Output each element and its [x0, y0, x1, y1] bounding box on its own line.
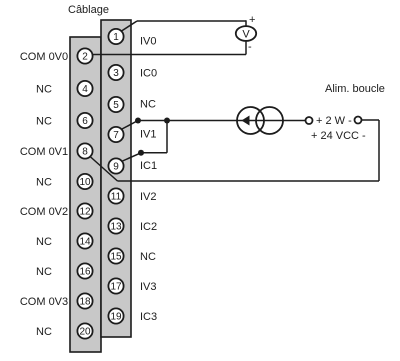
svg-text:Câblage: Câblage [68, 4, 109, 16]
terminal 8 [77, 143, 92, 158]
terminal 13 [108, 218, 123, 233]
terminal 20 [77, 323, 92, 338]
terminal block strip left (even terminals) [70, 37, 101, 352]
wire voltmeter top drop [245, 20, 247, 26]
svg-text:NC: NC [36, 177, 52, 189]
terminal 4 [77, 81, 92, 96]
wire node B drop vertical [166, 121, 168, 153]
svg-text:+ 24 VCC -: + 24 VCC - [311, 130, 366, 142]
wire terminal 1 to voltmeter (diagonal) [122, 21, 138, 31]
svg-text:IC0: IC0 [140, 68, 157, 80]
svg-text:NC: NC [36, 326, 52, 338]
terminal 14 [77, 233, 92, 248]
terminal 5 [108, 97, 123, 112]
terminal 1 [108, 29, 123, 44]
svg-text:3: 3 [113, 68, 119, 79]
svg-text:NC: NC [36, 116, 52, 128]
svg-text:8: 8 [82, 147, 88, 158]
svg-text:+ 2 W -: + 2 W - [316, 115, 352, 127]
loop supply terminal - (right ring) [355, 117, 362, 124]
node A junction dot [135, 118, 141, 124]
svg-text:9: 9 [113, 162, 119, 173]
wire voltmeter top horizontal [137, 20, 246, 22]
svg-text:IC2: IC2 [140, 221, 157, 233]
svg-text:5: 5 [113, 100, 119, 111]
svg-text:COM 0V3: COM 0V3 [20, 296, 68, 308]
svg-text:Alim. boucle: Alim. boucle [325, 83, 385, 95]
terminal 19 [108, 308, 123, 323]
svg-text:11: 11 [111, 192, 122, 203]
node C junction dot [138, 150, 144, 156]
terminal 16 [77, 263, 92, 278]
svg-text:IC1: IC1 [140, 160, 157, 172]
voltmeter U (circle with V) [236, 26, 256, 41]
svg-text:COM 0V0: COM 0V0 [20, 51, 68, 63]
svg-text:-: - [248, 41, 252, 53]
svg-text:V: V [242, 29, 250, 41]
svg-text:20: 20 [79, 327, 91, 338]
wire voltmeter bottom drop [245, 41, 247, 55]
node B junction dot [164, 118, 170, 124]
svg-text:IV3: IV3 [140, 281, 157, 293]
terminal 10 [77, 174, 92, 189]
terminal block strip right (odd terminals) [101, 20, 131, 337]
svg-text:IV0: IV0 [140, 36, 157, 48]
svg-text:10: 10 [79, 177, 91, 188]
wire voltmeter return to terminal 2 [92, 54, 246, 56]
svg-text:12: 12 [79, 207, 91, 218]
terminal 18 [77, 293, 92, 308]
svg-text:17: 17 [110, 282, 122, 293]
svg-text:IV2: IV2 [140, 191, 157, 203]
wire node B to node C horizontal [141, 152, 167, 154]
terminal 9 [108, 158, 123, 173]
svg-text:NC: NC [140, 99, 156, 111]
terminal 3 [108, 65, 123, 80]
terminal 2 [77, 48, 92, 63]
svg-text:+: + [249, 14, 255, 26]
terminal 11 [108, 188, 123, 203]
svg-text:4: 4 [82, 84, 88, 95]
svg-text:IV1: IV1 [140, 129, 157, 141]
wire loop return horizontal [118, 180, 380, 182]
svg-text:15: 15 [110, 252, 122, 263]
terminal 15 [108, 248, 123, 263]
svg-text:NC: NC [36, 236, 52, 248]
svg-text:14: 14 [79, 237, 91, 248]
svg-text:16: 16 [79, 267, 91, 278]
terminal 7 [108, 127, 123, 142]
svg-text:COM 0V2: COM 0V2 [20, 206, 68, 218]
loop supply terminal + (left ring) [306, 117, 313, 124]
svg-text:13: 13 [110, 222, 122, 233]
svg-text:NC: NC [140, 251, 156, 263]
svg-text:IC3: IC3 [140, 311, 157, 323]
svg-text:7: 7 [113, 130, 119, 141]
wire terminal 7 to node A (diagonal) [122, 121, 138, 130]
svg-text:1: 1 [113, 32, 119, 43]
current transmitter (2-wire loop) [237, 107, 283, 134]
terminal 6 [77, 113, 92, 128]
wire node C to terminal 9 (diagonal) [123, 153, 142, 161]
wire supply right horizontal [362, 119, 380, 121]
svg-text:NC: NC [36, 266, 52, 278]
svg-text:19: 19 [110, 312, 122, 323]
wire loop return to terminal 8 (diagonal) [90, 156, 118, 181]
svg-text:6: 6 [82, 116, 88, 127]
svg-text:COM 0V1: COM 0V1 [20, 146, 68, 158]
svg-text:NC: NC [36, 84, 52, 96]
terminal 12 [77, 203, 92, 218]
wire supply return vertical [378, 120, 380, 181]
svg-text:2: 2 [82, 52, 88, 63]
terminal 17 [108, 278, 123, 293]
wire loop main horizontal to transmitter [138, 120, 306, 122]
svg-text:18: 18 [79, 297, 91, 308]
